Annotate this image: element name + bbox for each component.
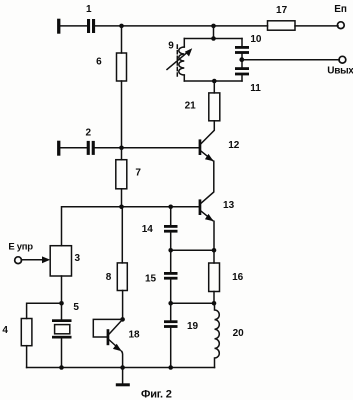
- block 3 (control element): [50, 246, 71, 276]
- svg-text:2: 2: [86, 128, 92, 139]
- wire C2 to Q12 base: [95, 147, 199, 149]
- terminal Uvyh: [339, 56, 346, 63]
- transistor Q13: [199, 199, 214, 221]
- wire R21 to Q12 collector: [201, 121, 214, 144]
- svg-text:9: 9: [168, 41, 174, 52]
- capacitor C1: [87, 19, 95, 33]
- svg-text:5: 5: [73, 302, 79, 313]
- arrow across L9: [167, 48, 192, 69]
- svg-text:21: 21: [185, 100, 197, 111]
- wire node to R4: [27, 303, 62, 318]
- wire tank right top: [241, 39, 243, 47]
- node bottom / C19: [168, 365, 173, 370]
- arrow E upr into block 3: [21, 256, 50, 263]
- resistor R16: [209, 263, 220, 292]
- wire tank left top: [183, 39, 185, 48]
- node row250 right: [212, 248, 217, 253]
- tank bottom wire: [184, 80, 242, 82]
- resistor R17: [268, 21, 296, 30]
- wire top rail down to R6: [121, 26, 123, 53]
- node bottom / crystal: [59, 365, 64, 370]
- wire Q13 emitter down: [213, 221, 215, 250]
- node row303 left: [168, 301, 173, 306]
- node top rail / tank: [211, 24, 216, 29]
- wire R17 to Ep terminal: [295, 25, 338, 27]
- resistor R4: [21, 319, 32, 346]
- svg-text:8: 8: [106, 272, 112, 283]
- node mid rail / R7,R8: [119, 205, 124, 210]
- capacitor C2: [87, 141, 95, 155]
- node block3 / R4 / XT5: [59, 301, 64, 306]
- svg-text:13: 13: [223, 200, 235, 211]
- wire C19 to bottom rail: [170, 328, 172, 368]
- svg-text:20: 20: [233, 328, 245, 339]
- svg-text:Еп: Еп: [334, 4, 347, 15]
- svg-text:11: 11: [250, 83, 261, 94]
- capacitor C15: [164, 272, 178, 280]
- node mid rail / C14: [168, 205, 173, 210]
- svg-text:19: 19: [187, 321, 199, 332]
- wire block3 down to node: [61, 276, 63, 303]
- wire mid rail down to C14: [170, 207, 172, 225]
- resistor R7: [116, 160, 127, 189]
- input terminal 2 (stub): [57, 141, 60, 156]
- svg-text:7: 7: [135, 167, 141, 178]
- wire input2 to C2: [60, 147, 86, 149]
- svg-text:3: 3: [75, 253, 81, 264]
- wire crystal to bottom rail: [61, 339, 63, 368]
- svg-text:Е упр: Е упр: [8, 242, 33, 253]
- input terminal 1 (top-left stub): [57, 19, 60, 34]
- wire C11 to tank bottom: [241, 75, 243, 81]
- tank top wire: [184, 38, 242, 40]
- wire R4 to bottom rail: [26, 346, 28, 368]
- svg-text:17: 17: [276, 5, 288, 16]
- transistor Q12: [199, 139, 214, 161]
- wire row 250: [171, 249, 214, 251]
- svg-text:15: 15: [145, 273, 157, 284]
- svg-text:6: 6: [96, 56, 102, 67]
- node row250 left: [168, 248, 173, 253]
- svg-text:Фиг. 2: Фиг. 2: [141, 389, 172, 400]
- svg-text:12: 12: [228, 140, 240, 151]
- node C10/C11 tap: [239, 57, 244, 62]
- wire mid rail to R8: [121, 207, 123, 263]
- capacitor C19: [164, 320, 178, 328]
- wire node to R7: [121, 148, 123, 160]
- capacitor C11: [235, 67, 249, 75]
- node row303 right: [212, 301, 217, 306]
- mid rail wire: [62, 207, 199, 246]
- wire node to crystal 5: [61, 303, 63, 319]
- crystal XT5: [52, 319, 72, 338]
- capacitor C10: [235, 46, 249, 54]
- svg-text:18: 18: [128, 330, 140, 341]
- wire row250 to R16: [213, 250, 215, 263]
- wire R16 to row303: [213, 292, 215, 304]
- wire C15 to row 303: [170, 280, 172, 304]
- wire node to C15: [170, 250, 172, 272]
- wire between C10 and C11: [241, 54, 243, 67]
- bottom rail: [27, 367, 215, 369]
- wire R6 down to node at C2 row: [121, 81, 123, 148]
- wire node to C19: [170, 303, 172, 320]
- wire C14 to node row 250: [170, 233, 172, 251]
- wire row 303: [171, 302, 214, 304]
- node top rail / R6: [119, 24, 124, 29]
- svg-text:4: 4: [2, 325, 8, 336]
- node C2 / R6 / R7: [119, 146, 124, 151]
- wire input1 to C1: [60, 25, 87, 27]
- terminal E upr: [15, 257, 22, 264]
- wire tank bottom to R21: [213, 81, 215, 93]
- inductor L20: [215, 303, 220, 367]
- terminal Ep: [337, 22, 344, 29]
- resistor R6: [117, 53, 127, 81]
- transistor Q18 (diode connected): [93, 317, 125, 367]
- wire top rail C1 to R17: [95, 25, 267, 27]
- wire tank feed vertical: [213, 26, 215, 39]
- svg-text:10: 10: [250, 34, 262, 45]
- ground: [116, 368, 130, 387]
- resistor R21: [209, 93, 220, 121]
- svg-text:14: 14: [142, 224, 154, 235]
- capacitor C14: [164, 225, 178, 233]
- svg-text:16: 16: [232, 272, 244, 283]
- inductor L9 (variable): [179, 47, 184, 75]
- svg-text:1: 1: [86, 4, 92, 15]
- node tank top: [211, 36, 216, 41]
- wire Q12 emitter to Q13 collector: [201, 161, 214, 203]
- adjustment dashed line of L9: [176, 45, 178, 76]
- wire L9 to tank bottom: [183, 75, 185, 81]
- resistor R8: [117, 263, 127, 291]
- node bottom / Q18 ground: [120, 365, 125, 370]
- wire tap to Uvyh terminal: [242, 59, 339, 61]
- wire R7 to mid rail: [121, 189, 123, 207]
- wire R8 to Q18: [122, 291, 124, 320]
- svg-text:Uвых: Uвых: [327, 66, 353, 77]
- node tank bottom: [212, 79, 217, 84]
